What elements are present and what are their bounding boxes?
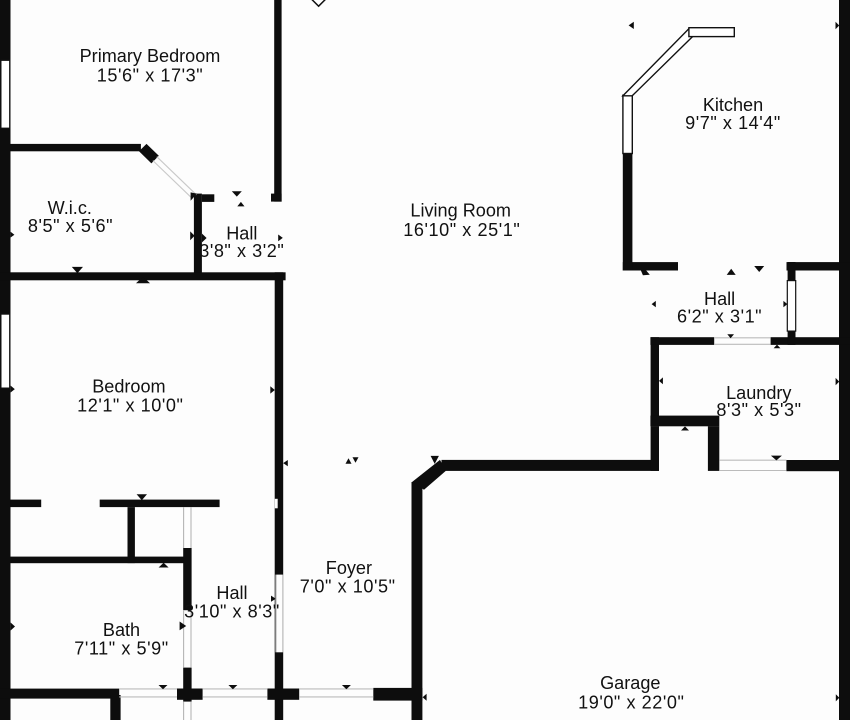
svg-text:Living Room: Living Room [410,200,511,220]
wall laundry bottom right of opening [786,460,839,471]
marker wic bottom down [72,267,83,273]
wall wic top diagonal [139,144,159,164]
wall bath closet vertical T [128,507,135,563]
wall kitchen left vertical [623,153,633,271]
marker foyer top pair down [353,457,359,463]
svg-text:15'6" x 17'3": 15'6" x 17'3" [97,66,203,86]
marker hall38 left wall pair right2 [202,234,207,243]
wall bottom left room vertical [110,695,120,720]
opening lines bath door vertical x183-191 [184,507,191,720]
marker left wall wic arrow [11,232,15,238]
opening lines laundry bottom door [719,460,786,470]
marker bottom door1 down [159,685,168,689]
marker kitchen right wall arrow [836,22,840,30]
wall living room bottom horizontal [442,460,660,471]
marker wic bottom up [136,277,150,284]
marker kitchen opening down [754,266,764,272]
svg-text:19'0" x 22'0": 19'0" x 22'0" [578,693,684,713]
window kitchen diagonal [623,29,693,96]
marker bottom door2 down [228,685,237,689]
svg-text:8'3" x 5'3": 8'3" x 5'3" [716,400,801,420]
svg-text:7'0" x 10'5": 7'0" x 10'5" [300,576,396,596]
window hall62 right [787,281,795,332]
marker laundry door down [727,334,734,338]
wall hall62 top right part [787,262,850,270]
wall bedroom bottom / bath top [100,500,220,508]
opening notch in bedroom right wall [275,499,278,509]
wall passage left jamb [651,426,659,471]
marker bath up [159,563,169,568]
marker garage right wall arrow [836,694,840,701]
svg-text:Primary Bedroom: Primary Bedroom [80,46,221,66]
marker hall38 right opening arrow [278,235,283,242]
wall foyer/garage right vertical [412,482,423,720]
marker passage up [681,426,689,430]
wall primary bedroom right foot [271,194,282,202]
window kitchen top bar [689,28,734,37]
marker bath top down [137,494,147,500]
wall hall62 window stub top [788,262,796,281]
kitchen door flap [641,271,650,276]
marker bath door arrow [180,622,187,631]
opening lines bottom wall doors [119,689,373,697]
wall hall38 top stub [202,194,214,202]
wall left outer [0,0,11,720]
svg-text:3'8" x 3'2": 3'8" x 3'2" [199,241,284,261]
marker living corner down [431,456,439,464]
marker hall38 left wall pair right1 [190,231,194,240]
marker kitchen opening up [727,269,736,275]
wall wic top horizontal [11,144,141,151]
marker left wall bedroom arrow [11,386,15,393]
wall bottom segment 4 [373,688,422,701]
marker hall62 left arrow [652,301,656,307]
wall right outer [839,0,850,720]
marker bottom door3 down [342,685,351,689]
marker left wall bath arrow [11,623,15,631]
svg-text:8'5" x 5'6": 8'5" x 5'6" [28,216,113,236]
wall wic/hall bottom horizontal [0,272,286,280]
wall bath door jamb block [183,548,191,610]
wall bedroom/foyer right (x~275-283) [275,272,284,720]
wall bath upper horizontal [11,557,185,564]
svg-text:9'7" x 14'4": 9'7" x 14'4" [685,113,781,133]
svg-text:6'2" x 3'1": 6'2" x 3'1" [677,307,762,327]
svg-text:7'11" x 5'9": 7'11" x 5'9" [74,638,168,658]
svg-text:16'10" x 25'1": 16'10" x 25'1" [403,220,520,240]
marker foyer door arrow [271,596,276,602]
marker hall38 top opening down [232,191,242,196]
opening lines laundry top door [714,338,770,345]
wall laundry top left part [650,337,714,345]
wall bedroom bottom stub left [11,500,42,508]
marker laundry bottom door down [771,456,782,461]
svg-text:Kitchen: Kitchen [703,95,763,115]
svg-text:Garage: Garage [600,673,660,693]
svg-text:3'10" x 8'3": 3'10" x 8'3" [184,602,280,622]
marker kitchen window arrow left [629,22,634,29]
wall living room bottom diagonal [412,460,446,490]
svg-text:Bath: Bath [103,620,140,640]
marker garage door left arrow [423,694,427,701]
window kitchen left vertical [623,95,632,153]
wall bottom segment 2 [177,689,203,700]
svg-text:12'1" x 10'0": 12'1" x 10'0" [77,396,183,416]
window bedroom left [1,314,10,388]
wall laundry left vertical [651,337,659,426]
marker hall38 top opening up [237,202,244,207]
marker foyer top pair up [346,458,352,464]
window primary bedroom left [1,60,10,128]
wall bottom segment 3 [267,689,299,700]
wall above garage passage [650,416,719,427]
opening lines foyer left wall [276,575,283,653]
wall primary bedroom right [274,0,281,202]
opening white foyer left wall [277,575,283,653]
marker hall62 right arrow [783,301,787,307]
marker foyer top right arrow [283,460,288,466]
wall hall/bath lower block [183,668,191,702]
diamond marker top [311,0,326,6]
wic door diagonal lines [153,157,197,199]
marker laundry right wall arrow [836,378,840,385]
svg-text:Bedroom: Bedroom [92,377,165,397]
wall hall38 left vertical [194,194,202,273]
marker laundry door up [774,345,781,349]
wall hall62 window stub bottom [788,331,796,345]
wall kitchen bottom [623,262,678,270]
wall bottom segment 1 [0,689,119,699]
svg-text:Hall: Hall [216,583,247,603]
wall laundry top right part [771,337,850,345]
svg-text:Foyer: Foyer [326,558,372,578]
marker laundry left wall arrow [659,377,663,384]
wic door corner triangle [191,192,197,200]
marker bedroom right wall arrow [270,386,275,393]
wall passage right jamb [708,426,719,471]
